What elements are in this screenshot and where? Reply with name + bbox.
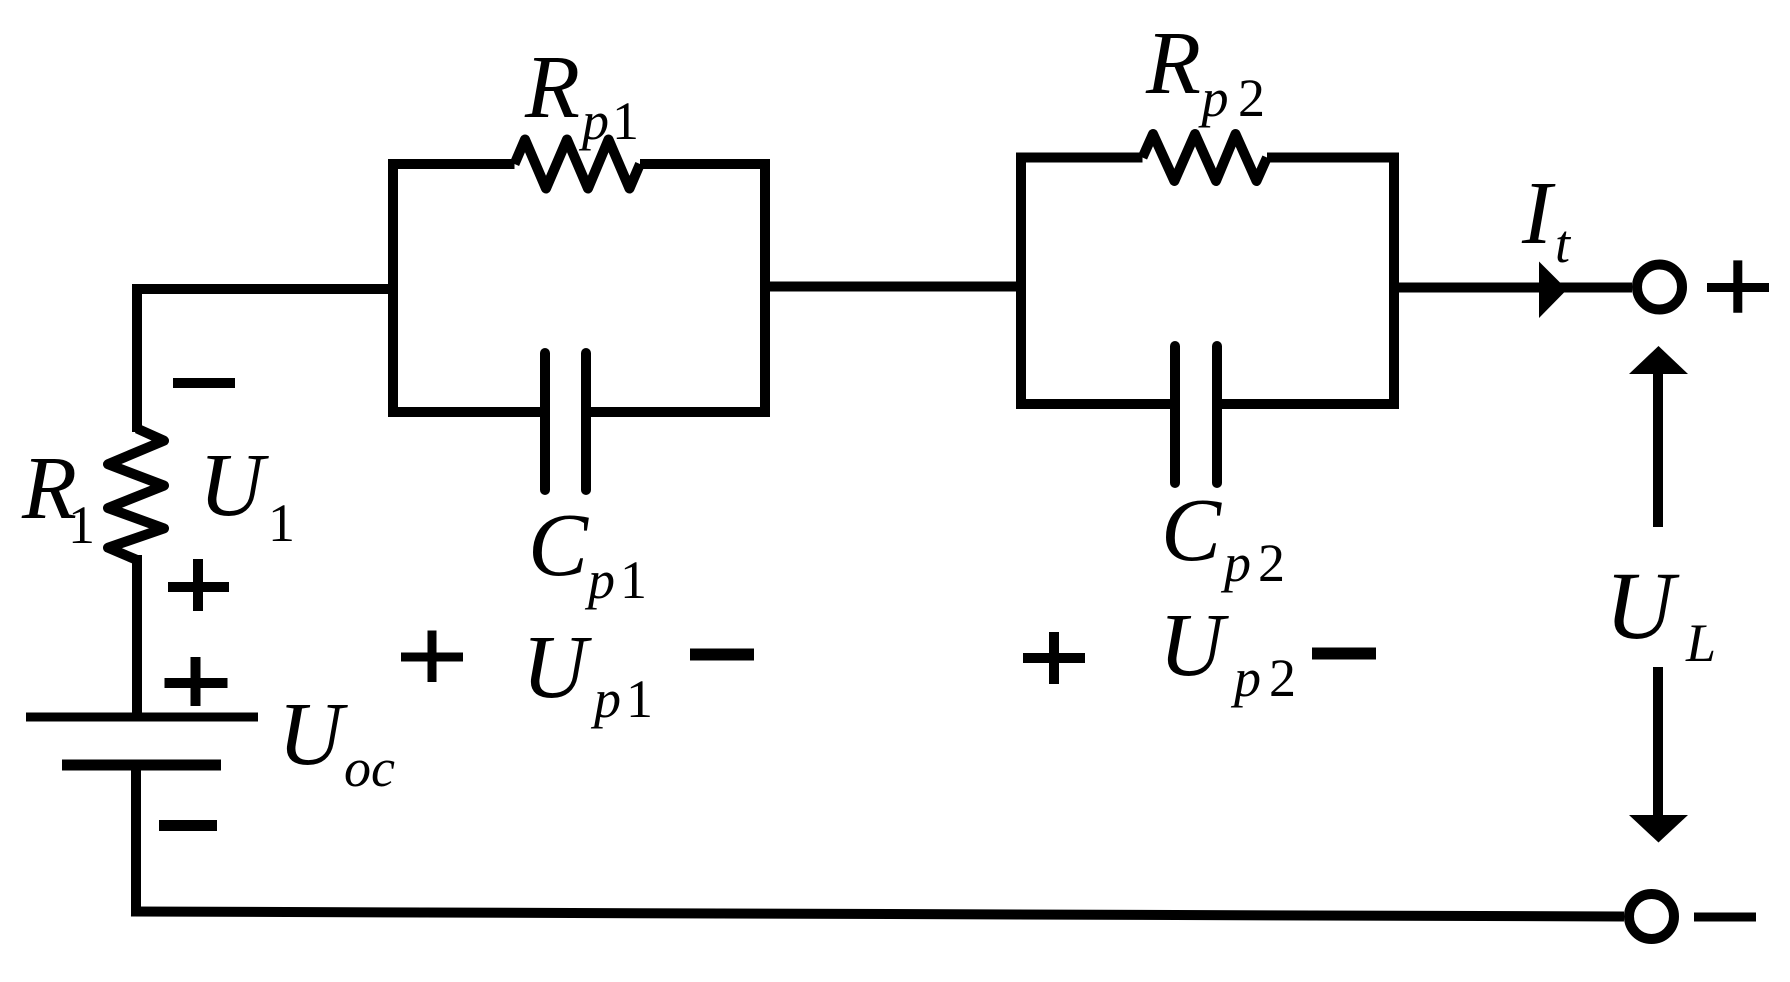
svg-text:1: 1: [626, 669, 653, 729]
svg-text:2: 2: [1258, 533, 1285, 593]
svg-text:2: 2: [1238, 68, 1265, 128]
svg-text:R: R: [1145, 14, 1201, 113]
svg-text:p: p: [590, 669, 621, 729]
resistor R_p2 (zigzag): [1143, 134, 1268, 181]
svg-text:p: p: [584, 550, 615, 610]
wire top-left: node A to R_p1 box: [137, 289, 393, 432]
plus sign of U_p1: [401, 631, 463, 683]
svg-text:L: L: [1685, 613, 1716, 673]
minus sign of U1: [173, 378, 235, 388]
capacitor C_p1 left plate: [540, 353, 550, 490]
plus sign of Uoc: [165, 657, 228, 706]
resistor R_p1 (zigzag): [515, 140, 641, 189]
minus sign at negative terminal: [1694, 913, 1756, 922]
svg-text:p: p: [1230, 648, 1261, 708]
wire bottom rail: [131, 912, 1624, 917]
svg-text:U: U: [1159, 596, 1229, 695]
battery Uoc short plate (-): [62, 760, 221, 771]
capacitor C_p1 right plate: [581, 353, 591, 490]
plus sign of U1: [168, 559, 229, 611]
svg-text:p: p: [578, 91, 609, 151]
svg-text:oc: oc: [344, 738, 395, 798]
wire R_p2 to positive terminal: [1394, 283, 1632, 293]
plus sign at positive terminal: [1707, 260, 1769, 312]
RC network box R_p2/C_p2 frame: [1021, 158, 1394, 405]
negative terminal (open circle): [1629, 894, 1674, 939]
svg-text:U: U: [522, 618, 592, 717]
capacitor C_p2 right plate: [1212, 346, 1222, 483]
svg-text:C: C: [1161, 481, 1222, 580]
positive terminal (open circle): [1637, 265, 1682, 310]
svg-text:1: 1: [620, 550, 647, 610]
minus sign of Uoc: [159, 820, 217, 831]
svg-text:U: U: [1605, 552, 1680, 659]
resistor R1 (vertical zigzag): [108, 429, 164, 561]
plus sign of U_p2: [1023, 632, 1085, 684]
svg-text:1: 1: [612, 91, 639, 151]
U_L arrow down: [1653, 667, 1663, 816]
svg-text:1: 1: [68, 495, 95, 555]
battery Uoc long plate (+): [26, 713, 258, 722]
svg-text:2: 2: [1269, 648, 1296, 708]
svg-text:p: p: [1220, 533, 1251, 593]
svg-text:C: C: [528, 496, 589, 595]
svg-text:R: R: [524, 38, 580, 137]
U_L arrow up: [1653, 373, 1663, 527]
wire R1 to battery: [132, 555, 142, 721]
wire between RC networks: [765, 282, 1021, 292]
RC network box R_p1/C_p1 frame: [393, 164, 765, 412]
svg-text:U: U: [199, 436, 269, 535]
capacitor C_p2 left plate: [1170, 346, 1180, 483]
wire battery to bottom rail: [131, 765, 141, 912]
current arrow I_t: [1539, 262, 1567, 319]
svg-text:U: U: [278, 685, 348, 784]
minus sign of U_p2: [1312, 648, 1376, 660]
minus sign of U_p1: [690, 649, 754, 661]
svg-text:I: I: [1521, 164, 1556, 263]
svg-text:t: t: [1555, 214, 1572, 274]
svg-text:1: 1: [268, 493, 295, 553]
svg-text:p: p: [1198, 68, 1229, 128]
